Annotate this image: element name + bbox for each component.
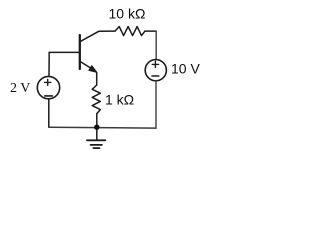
wire left vertical upper	[48, 52, 50, 76]
wire emitter vertical	[96, 73, 98, 86]
wire top right	[145, 30, 156, 32]
svg-text:10 V: 10 V	[171, 61, 200, 77]
wire right vertical upper	[155, 31, 157, 60]
wire left vertical lower	[48, 99, 50, 128]
node junction dot	[94, 125, 99, 130]
wire bottom horizontal	[49, 126, 156, 129]
svg-text:1 kΩ: 1 kΩ	[105, 91, 134, 107]
ground bar 1	[87, 139, 105, 141]
wire base horizontal	[49, 51, 79, 53]
svg-text:10 kΩ: 10 kΩ	[109, 5, 146, 21]
resistor R1 10k zigzag	[115, 27, 145, 36]
V2 plus sign	[152, 61, 158, 67]
ground stub	[96, 127, 98, 139]
svg-text:2 V: 2 V	[10, 81, 30, 96]
wire collector top	[99, 30, 115, 32]
V1 plus sign	[45, 79, 51, 85]
wire right vertical lower	[155, 81, 157, 128]
transistor Q1 emitter arrowhead	[89, 66, 97, 73]
transistor Q1 collector diagonal	[81, 31, 99, 41]
V1 minus sign	[45, 95, 53, 97]
voltage source V1 2V circle	[37, 76, 59, 98]
V2 minus sign	[152, 75, 159, 77]
ground bar 3	[93, 147, 99, 149]
wire resistor bottom to node	[96, 114, 98, 128]
transistor Q1 base bar	[79, 35, 81, 69]
resistor R2 1k zigzag	[92, 85, 100, 114]
transistor Q1 emitter diagonal	[81, 62, 93, 70]
ground bar 2	[91, 144, 102, 146]
voltage source V2 10V circle	[145, 60, 166, 81]
